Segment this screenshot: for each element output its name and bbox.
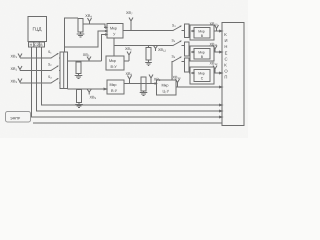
microcircuit V row2 inner [194, 49, 210, 60]
switch S2 [51, 66, 58, 71]
wire row2 left [20, 70, 51, 72]
connector XB9 left [87, 89, 91, 92]
svg-text:Мкр: Мкр [109, 59, 116, 63]
arrow into C-U [153, 83, 157, 85]
connector XB4 [88, 18, 92, 22]
filter box row1 [185, 24, 190, 38]
wire tall box bottom output [68, 88, 105, 90]
microcircuit V row1 inner [194, 28, 210, 39]
connector XB8 [128, 76, 132, 80]
svg-text:С2: С2 [34, 43, 38, 47]
svg-text:В-У: В-У [111, 65, 118, 69]
svg-text:Е: Е [225, 50, 228, 55]
riser to Mkr U lower input [102, 35, 107, 62]
svg-text:С: С [225, 56, 228, 61]
wire y47 to Mkr U riser [65, 31, 107, 47]
svg-text:Мкр: Мкр [198, 29, 204, 33]
switch S4 [173, 26, 181, 31]
svg-text:ХВ4: ХВ4 [85, 14, 92, 19]
wire row2 from node to S5 [114, 45, 173, 47]
svg-text:ХВ2: ХВ2 [11, 67, 18, 72]
svg-text:Мкр: Мкр [198, 50, 204, 54]
ground under R5 [78, 103, 80, 105]
microcircuit U box [107, 24, 123, 39]
wire to Mkr U top input [83, 24, 106, 28]
filter box row3 [185, 58, 190, 72]
connector XB2 [18, 66, 22, 70]
ground under R1 [80, 32, 82, 34]
connector XB10 [215, 25, 219, 29]
ground under R2 [78, 74, 80, 76]
svg-text:В-У: В-У [111, 89, 118, 93]
switch S6 [173, 57, 181, 62]
pin strip Н С2 В [29, 42, 45, 47]
switch S5 [173, 41, 181, 46]
svg-text:ХВ9: ХВ9 [154, 78, 161, 83]
svg-text:Мкр: Мкр [162, 84, 169, 88]
resistor R1 [78, 19, 83, 33]
svg-text:ХВ10: ХВ10 [210, 22, 219, 27]
connector XB7 [129, 18, 133, 22]
wire tall box mid output [68, 60, 102, 62]
svg-text:ХВ5: ХВ5 [83, 53, 90, 58]
svg-text:ГЦД: ГЦД [33, 27, 43, 32]
svg-text:Мкр: Мкр [110, 83, 117, 87]
microcircuit C row3 outer [190, 67, 214, 84]
connector XB11 [213, 46, 217, 50]
svg-text:ХВ7: ХВ7 [126, 11, 133, 16]
svg-text:Н: Н [224, 44, 227, 49]
input arrows [104, 27, 107, 29]
switch S3 [51, 79, 58, 84]
svg-text:ХВ9: ХВ9 [90, 96, 97, 101]
switch blade arrowheads [57, 53, 59, 55]
switch S1 [51, 54, 58, 59]
microcircuit V row1 outer [190, 25, 214, 40]
connector XB5 [87, 57, 91, 60]
output row1 to CRT [214, 30, 220, 32]
svg-text:Мкр: Мкр [110, 27, 117, 31]
filter box row2 [185, 42, 190, 56]
connector XB3 [18, 79, 22, 83]
output wire lower row [124, 83, 153, 85]
bus wire H (x31) [32, 47, 220, 117]
svg-text:Ц-У: Ц-У [163, 90, 170, 94]
svg-text:ХВ12: ХВ12 [158, 48, 167, 53]
svg-text:ЭФПР: ЭФПР [10, 117, 21, 121]
connector XB12 mid [154, 46, 158, 49]
riser from C-U box to S6 [172, 62, 173, 81]
connector XB12 right [213, 66, 217, 70]
bus wire C (x36) [37, 47, 220, 111]
microcircuit C-U box [157, 80, 177, 95]
connector XB1 [18, 54, 22, 58]
svg-text:ХВ13: ХВ13 [173, 76, 182, 81]
svg-text:ХВ11: ХВ11 [210, 43, 218, 48]
svg-text:П: П [224, 75, 227, 80]
bus arrows into CRT [220, 104, 223, 106]
svg-text:ХВ3: ХВ3 [11, 80, 18, 85]
wire row3 left [20, 82, 51, 84]
resistor R2 [76, 62, 81, 74]
ground under R4 [143, 91, 145, 93]
svg-text:ХВ1: ХВ1 [11, 55, 18, 60]
resistor R4 [141, 77, 146, 91]
microcircuit V-U box lower [107, 80, 124, 94]
resistor R3 [146, 48, 151, 61]
output row3 to CRT [214, 72, 220, 74]
commutator tall box [60, 52, 68, 89]
output wire C-U to CRT [176, 86, 220, 88]
connector XB13 [176, 79, 180, 83]
wire Mkr U down to Mkr V-U [113, 38, 115, 56]
junction dots [31, 30, 174, 84]
wire Mkr U output row (top row to S4) [123, 30, 173, 32]
microcircuit V row2 outer [190, 46, 214, 61]
wire from tall box top up to R1 [65, 18, 79, 52]
svg-text:ХВ12: ХВ12 [210, 62, 219, 67]
CRT box [222, 23, 244, 126]
svg-text:И: И [225, 38, 228, 43]
connector XB6 [124, 60, 129, 62]
wire row1 left [20, 57, 51, 59]
microcircuit V-U box upper [106, 56, 124, 70]
stamp [6, 112, 31, 123]
connector XB9 mid [149, 75, 153, 79]
svg-text:Мкр: Мкр [198, 72, 204, 76]
microcircuit C row3 inner [194, 70, 210, 82]
generator box ГЦД [28, 17, 47, 42]
bus wire B (x41) [42, 47, 220, 105]
svg-text:ХВ6: ХВ6 [125, 47, 132, 52]
svg-text:ХВ8: ХВ8 [126, 72, 133, 77]
output row2 to CRT [214, 51, 220, 53]
resistor R5 [77, 90, 82, 103]
bus wire lower [33, 122, 222, 124]
